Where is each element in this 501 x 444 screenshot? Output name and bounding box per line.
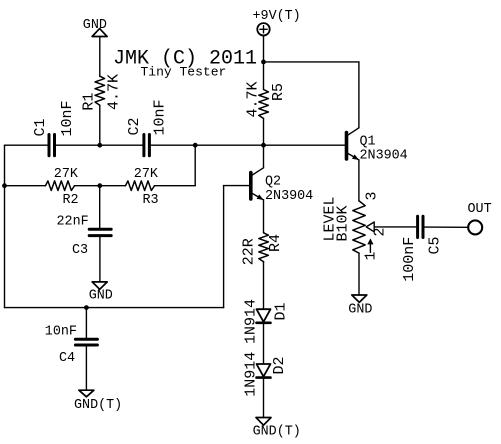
junction node R2/R3 center <box>97 183 102 188</box>
svg-text:1: 1 <box>363 251 380 260</box>
svg-text:R3: R3 <box>143 193 159 208</box>
svg-text:D2: D2 <box>271 356 288 374</box>
wire: R1 bottom to rail node <box>99 105 101 145</box>
svg-text:C5: C5 <box>427 236 444 254</box>
wire: Q2 base horizontal <box>224 185 249 187</box>
power terminal +9V(T) <box>257 23 269 35</box>
svg-text:B10K: B10K <box>335 205 352 241</box>
wire: Q2 collector vertical to node <box>263 145 265 168</box>
resistor R1 <box>95 76 105 105</box>
wire: +9V terminal down to R5 <box>263 36 265 90</box>
wire: loop junction down to C4 <box>85 308 87 338</box>
svg-text:10nF: 10nF <box>152 99 169 135</box>
svg-text:3: 3 <box>364 191 381 200</box>
wire: bottom loop horizontal <box>5 307 224 309</box>
ground symbol below C3 <box>92 282 107 289</box>
wire: pot bottom to GND <box>358 253 360 295</box>
wire: C4 to GND(T) <box>85 346 87 390</box>
svg-text:100nF: 100nF <box>401 237 418 282</box>
svg-text:D1: D1 <box>273 302 290 320</box>
wire: vertical down to Q1 collector <box>358 62 360 128</box>
resistor R5 <box>259 90 269 119</box>
svg-text:27K: 27K <box>54 167 79 182</box>
svg-text:2: 2 <box>372 227 389 236</box>
potentiometer LEVEL B10K body <box>353 201 365 253</box>
ground symbol GND(T) below C4 <box>79 390 94 397</box>
capacitor C3 plates <box>89 228 111 231</box>
potentiometer pin1 direction arrow <box>369 242 371 253</box>
wire: riser R3 to node at y=145 <box>194 145 196 185</box>
svg-text:Q2: Q2 <box>265 175 281 190</box>
wire: Q1 emitter to potentiometer <box>358 160 360 201</box>
wire: GND to R1 top <box>99 37 101 77</box>
junction node R3 riser <box>193 143 198 148</box>
svg-text:1N914: 1N914 <box>243 352 260 397</box>
capacitor C2 plates <box>142 135 145 156</box>
svg-text:GND(T): GND(T) <box>74 398 122 413</box>
potentiometer wiper arrow <box>366 222 374 232</box>
wire: riser from loop to Q2 base <box>223 186 225 308</box>
wire: left vertical rail <box>4 145 6 307</box>
wire: R2/R3 node down to C3 <box>99 186 101 228</box>
svg-text:C2: C2 <box>126 117 143 135</box>
wire: C5 to OUT <box>424 226 468 228</box>
svg-text:R5: R5 <box>270 83 287 101</box>
wire: D2 to GND(T) <box>263 378 265 418</box>
resistor R4 <box>259 233 269 262</box>
junction node +9V branch <box>261 60 266 65</box>
svg-text:R4: R4 <box>267 234 284 252</box>
svg-text:27K: 27K <box>134 167 159 182</box>
junction node R1/C1-C2 rail <box>97 143 102 148</box>
capacitor C5 plates <box>416 216 419 237</box>
transistor Q1 2N3904 <box>347 128 359 160</box>
diode D2 1N914 <box>257 364 271 377</box>
resistor R3 <box>126 181 155 191</box>
svg-text:22R: 22R <box>240 238 257 265</box>
svg-text:OUT: OUT <box>468 202 492 217</box>
wire: C2 to Q1 base <box>151 144 345 146</box>
svg-text:GND(T): GND(T) <box>253 425 301 440</box>
wire: pot wiper to C5 <box>374 226 416 228</box>
wire: C1 to C2 <box>56 144 142 146</box>
svg-text:R2: R2 <box>63 193 79 208</box>
wire: top right horizontal from node to Q1 collector column <box>264 61 359 63</box>
svg-text:Tiny Tester: Tiny Tester <box>141 65 227 80</box>
resistor R2 <box>46 181 75 191</box>
svg-text:10nF: 10nF <box>45 325 77 340</box>
junction node loop to C4 <box>84 305 89 310</box>
svg-text:GND: GND <box>83 18 107 33</box>
svg-text:22nF: 22nF <box>57 215 89 230</box>
svg-text:GND: GND <box>348 303 372 318</box>
wire: top horizontal rail y=145, left rail to C1 <box>5 144 48 146</box>
output terminal OUT <box>468 220 482 234</box>
wire: R3 right to riser <box>155 185 196 187</box>
wire: R4 to D1 <box>263 262 265 309</box>
wire: D1 to D2 <box>263 323 265 364</box>
svg-text:4.7K: 4.7K <box>106 74 123 110</box>
svg-text:C3: C3 <box>72 243 88 258</box>
capacitor C4 plates <box>75 338 97 341</box>
wire: C3 bottom to GND <box>99 237 101 282</box>
capacitor C1 plates <box>48 135 51 156</box>
svg-text:GND: GND <box>89 288 113 303</box>
ground symbol GND(T) below D2 <box>256 418 271 426</box>
ground symbol below potentiometer <box>352 295 367 302</box>
junction node left rail R2 <box>2 183 7 188</box>
junction node R5/Q2 collector <box>261 143 266 148</box>
svg-text:C1: C1 <box>32 118 49 136</box>
transistor Q2 2N3904 <box>251 168 264 200</box>
svg-text:+9V(T): +9V(T) <box>253 9 301 24</box>
svg-text:10nF: 10nF <box>59 100 76 136</box>
wire: R2 to R3 through junction <box>75 185 126 187</box>
diode D1 1N914 <box>257 309 271 322</box>
wire: R5 bottom to node <box>263 119 265 146</box>
wire: Q2 emitter to R4 <box>263 200 265 233</box>
svg-text:Q1: Q1 <box>360 134 376 149</box>
svg-text:R1: R1 <box>81 93 98 111</box>
svg-text:C4: C4 <box>59 351 75 366</box>
svg-text:1N914: 1N914 <box>243 299 260 344</box>
svg-text:2N3904: 2N3904 <box>360 148 408 163</box>
wire: left rail to R2 <box>5 185 46 187</box>
ground symbol top (flipped) <box>92 29 107 37</box>
svg-text:2N3904: 2N3904 <box>265 189 313 204</box>
svg-text:4.7K: 4.7K <box>245 81 262 117</box>
